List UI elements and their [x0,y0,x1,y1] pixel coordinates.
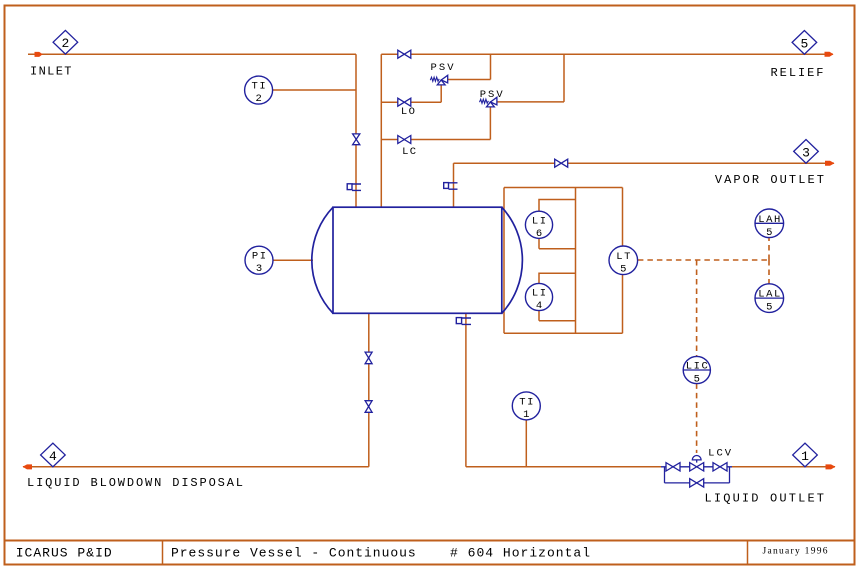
svg-text:LT: LT [616,251,630,263]
fitting on inlet drop [347,184,361,191]
wire liquid outlet line right [732,466,835,468]
wire inlet drop to vessel [355,54,357,207]
valve on LO branch [398,98,405,106]
wire vapor riser [453,163,455,207]
svg-text:# 604 Horizontal: # 604 Horizontal [450,546,590,561]
svg-text:Pressure Vessel - Continuous: Pressure Vessel - Continuous [171,546,416,561]
svg-text:LC: LC [402,146,416,158]
svg-text:3: 3 [256,263,262,275]
arrow inlet [35,52,43,57]
node diamond 5 relief [792,31,817,55]
wire PI3 tap [273,259,313,261]
signal LAH branch dashed [768,238,770,260]
valve block downstream [713,463,720,471]
svg-text:LIQUID BLOWDOWN DISPOSAL: LIQUID BLOWDOWN DISPOSAL [27,476,243,490]
wire PSV1 outlet [448,54,491,79]
arrow vapor [825,161,835,166]
vessel right head [502,207,523,313]
vessel V1 body [333,207,502,313]
valve blowdown upper [365,352,372,358]
instrument LIC5 [683,356,710,385]
control valve station LCV manifold [661,455,732,487]
arrow blowdown [23,464,33,469]
valve blowdown lower [365,401,372,407]
wire liquid outlet riser [465,313,467,467]
svg-text:4: 4 [536,300,542,312]
svg-text:LI: LI [532,288,546,300]
node diamond 4 blowdown [41,443,66,467]
svg-text:LO: LO [401,106,415,118]
wire LO branch [381,85,441,102]
svg-text:LAL: LAL [758,289,780,301]
node diamond 2 inlet [53,30,78,54]
wire vapor outlet line [454,162,835,164]
wire LC branch [381,107,490,140]
svg-text:PSV: PSV [480,89,504,101]
signal LT5 to LAH/LAL/LIC dashed [638,259,769,261]
signal LIC branch dashed [696,260,698,357]
svg-text:5: 5 [800,36,808,51]
wire liquid outlet line left [466,466,661,468]
instrument TI2 [245,76,273,105]
valve on vapor line [555,159,562,167]
valve block upstream [666,463,673,471]
svg-text:PI: PI [252,251,266,263]
relief valve PSV2 [480,97,497,107]
wire blowdown line [23,466,369,468]
instrument LAH5 [755,209,784,239]
fitting on vapor riser [444,183,458,190]
wire TI1 stem [525,420,527,467]
title bar top line [5,540,855,542]
valve on relief header [398,50,405,58]
wire PSV2 outlet [497,54,564,102]
valve on inlet drop [353,134,360,139]
instrument LT5 [609,246,638,275]
svg-text:LCV: LCV [708,448,732,460]
arrow relief [825,52,834,57]
svg-text:LI: LI [532,215,546,227]
svg-text:2: 2 [61,36,69,51]
svg-text:5: 5 [766,227,772,239]
wire relief header [381,53,833,55]
title divider 1 [162,541,164,565]
instrument PI3 [245,246,273,275]
svg-text:ICARUS P&ID: ICARUS P&ID [16,546,112,561]
wire bypass loop [665,467,730,483]
wire manifold run [661,466,732,468]
svg-text:4: 4 [49,449,57,464]
svg-text:5: 5 [694,374,700,386]
signal LAL branch dashed [768,260,770,284]
valve bypass [690,479,697,487]
wire LI4 loop [539,273,576,320]
svg-text:1: 1 [801,449,809,464]
svg-text:LAH: LAH [758,214,780,226]
wire TI2 tap [273,89,357,91]
svg-text:5: 5 [766,302,772,314]
wire relief riser [380,54,382,207]
wire inlet line [28,53,356,55]
svg-text:TI: TI [252,81,266,93]
svg-text:6: 6 [536,228,542,240]
svg-text:INLET: INLET [30,65,72,79]
instrument LI4 [525,283,552,312]
svg-text:5: 5 [620,263,626,275]
svg-text:2: 2 [255,93,261,105]
valve LCV body [690,463,697,471]
instrument LI6 [525,211,552,240]
vessel left head [312,207,333,313]
svg-text:LIC: LIC [686,361,708,373]
node diamond 1 liquid [793,443,818,467]
title divider 2 [747,541,749,565]
actuator LCV diaphragm [696,460,698,463]
relief valve PSV1 [430,75,447,85]
wire bridle frame [504,188,623,334]
svg-text:1: 1 [523,409,529,421]
fitting on liquid riser [456,318,471,325]
svg-text:January 1996: January 1996 [763,547,828,557]
wire LI6 loop [539,200,576,249]
valve on LC branch [398,136,405,144]
wire blowdown drop [368,313,370,467]
instrument TI1 [512,392,540,421]
svg-text:TI: TI [519,396,533,408]
signal LIC to LCV dashed [696,383,698,453]
svg-text:PSV: PSV [431,62,455,74]
node diamond 3 vapor [794,140,819,164]
arrow liquid outlet [826,464,836,469]
instrument LAL5 [755,284,784,314]
svg-text:3: 3 [802,145,810,160]
